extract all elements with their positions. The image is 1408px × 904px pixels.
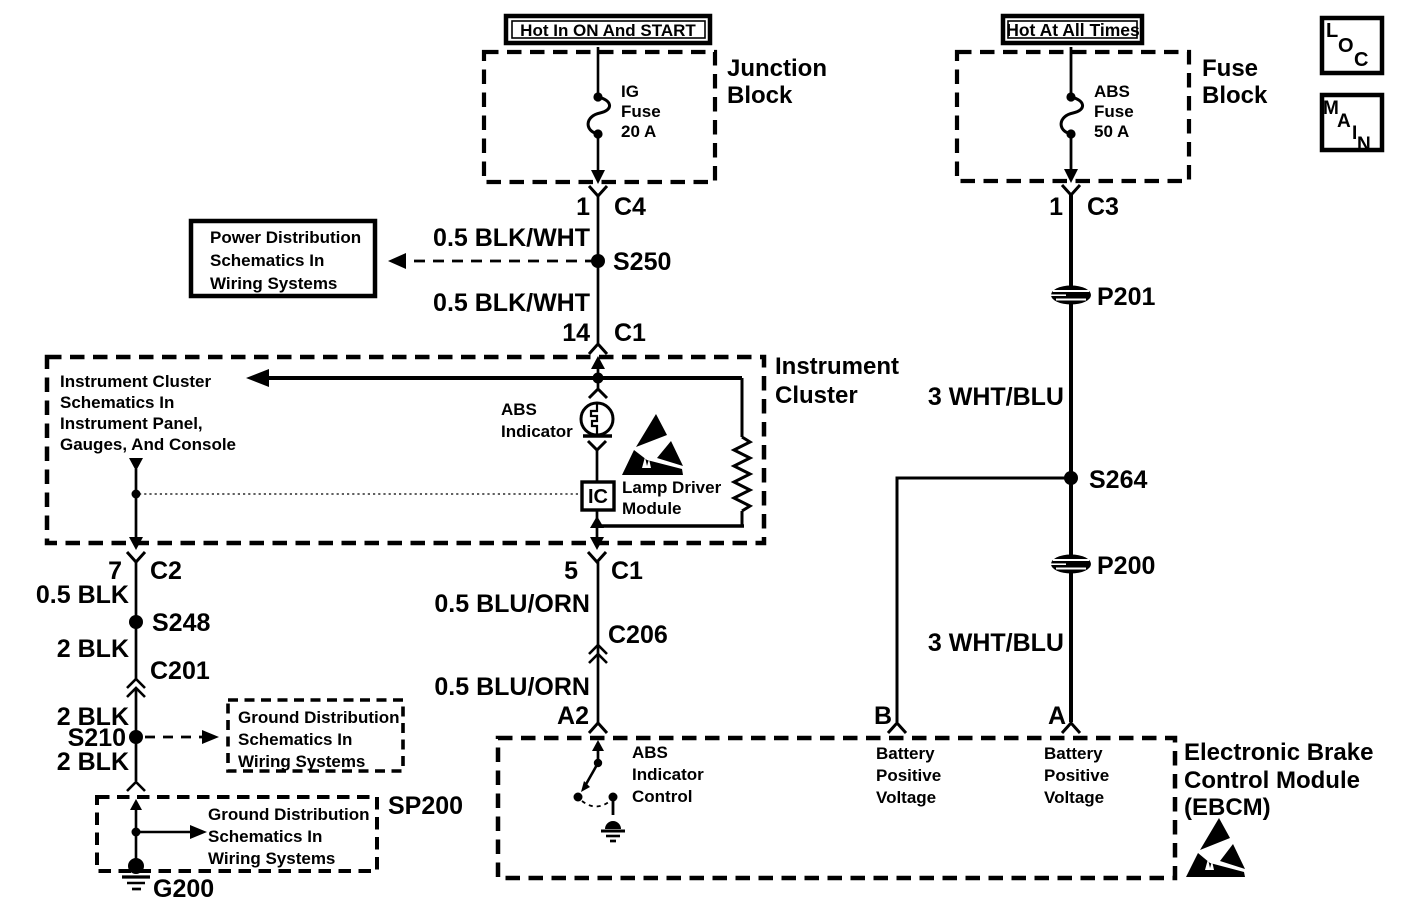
node Battery Positive Voltage text at B: [876, 744, 941, 807]
svg-text:Ground Distribution: Ground Distribution: [238, 708, 399, 727]
svg-text:P201: P201: [1097, 283, 1155, 311]
wire dashed reference arrow from S250 to Power Distribution: [404, 260, 596, 263]
svg-text:5: 5: [564, 557, 578, 585]
svg-text:(EBCM): (EBCM): [1184, 794, 1271, 821]
wire C3 to P201: [1069, 195, 1073, 287]
svg-text:C4: C4: [614, 193, 646, 221]
svg-text:Junction: Junction: [727, 55, 827, 82]
wire fuse to connector C3: [1070, 134, 1073, 171]
svg-text:C201: C201: [150, 657, 210, 685]
connector C1 female chevron: [589, 344, 607, 354]
node Hot In ON And START title box: [506, 16, 710, 43]
node Hot At All Times title box: [1003, 16, 1142, 43]
wire S264 to P200: [1069, 478, 1073, 556]
svg-text:0.5 BLK/WHT: 0.5 BLK/WHT: [433, 224, 590, 252]
connector C2 female chevron: [127, 552, 145, 562]
wire SP200 internal: [135, 808, 138, 866]
fuse F1 IG Fuse 20 A: [588, 82, 661, 141]
connector C4 female chevron: [589, 186, 607, 196]
junction block dashed box: [484, 52, 715, 182]
svg-text:C1: C1: [614, 319, 646, 347]
svg-text:Lamp Driver: Lamp Driver: [622, 478, 722, 497]
lamp socket chevron below ABS indicator: [588, 441, 606, 450]
svg-text:C206: C206: [608, 621, 668, 649]
svg-text:S264: S264: [1089, 466, 1147, 494]
wire dashed reference arrow from S210 to Ground Distribution: [145, 736, 204, 739]
svg-text:A2: A2: [557, 702, 589, 730]
wire branch from S264 to EBCM pin B: [897, 478, 1071, 722]
svg-text:IC: IC: [588, 486, 608, 508]
splice pack SP200 dashed box: [97, 797, 377, 871]
wire continuation arrow down-left to panel schematics: [129, 458, 143, 471]
svg-text:Instrument Cluster: Instrument Cluster: [60, 372, 212, 391]
svg-text:Positive: Positive: [1044, 766, 1109, 785]
svg-text:Schematics In: Schematics In: [238, 730, 352, 749]
wire C4 to splice S250 to connector C1: [597, 196, 600, 343]
svg-text:Gauges, And Console: Gauges, And Console: [60, 435, 236, 454]
splice S210: [129, 730, 143, 744]
chevron at SP200 entry: [127, 782, 145, 791]
wire resistor bottom to branch: [741, 511, 744, 527]
fuse block dashed box: [957, 52, 1189, 181]
svg-text:P200: P200: [1097, 552, 1155, 580]
connector C206 double chevron: [589, 645, 607, 654]
connector C1 pin5 female chevron: [588, 552, 606, 562]
node Power Distribution reference box: [191, 221, 375, 296]
wire feed line with left arrow inside cluster: [266, 376, 742, 380]
svg-text:ABS: ABS: [501, 400, 537, 419]
svg-text:0.5 BLK/WHT: 0.5 BLK/WHT: [433, 289, 590, 317]
svg-text:Schematics In: Schematics In: [60, 393, 174, 412]
svg-text:IG: IG: [621, 82, 639, 101]
svg-text:A: A: [1337, 111, 1351, 132]
wire C1 pin5 to C206 to A2: [597, 562, 600, 723]
connector C1 male arrow: [591, 356, 605, 369]
wire from Hot feed into junction block: [597, 47, 600, 95]
connector chevron at EBCM A2: [589, 723, 607, 733]
node SP200 junction dot: [132, 828, 141, 837]
wire C1 into cluster: [597, 367, 600, 388]
wire from Hot feed into fuse block: [1070, 47, 1073, 95]
ground internal EBCM: [601, 797, 625, 841]
ground G200: [122, 858, 214, 903]
svg-text:0.5 BLK: 0.5 BLK: [36, 581, 129, 609]
svg-text:1: 1: [576, 193, 590, 221]
grommet P200: [1051, 552, 1155, 580]
svg-text:Instrument Panel,: Instrument Panel,: [60, 414, 203, 433]
svg-text:Wiring Systems: Wiring Systems: [208, 849, 335, 868]
switch ABS indicator control: [574, 743, 705, 807]
svg-text:Indicator: Indicator: [501, 422, 573, 441]
esd symbol inside cluster: [622, 414, 683, 475]
splice S250: [591, 254, 605, 268]
wire IC to lower junction: [596, 510, 599, 537]
lamp socket chevron above ABS indicator: [589, 389, 607, 398]
wire C2 to S248 to C201: [135, 562, 138, 680]
svg-text:G200: G200: [153, 875, 214, 903]
node lower junction arrow of resistor branch: [590, 516, 604, 528]
svg-text:ABS: ABS: [632, 743, 668, 762]
svg-text:L: L: [1326, 20, 1338, 42]
svg-text:Block: Block: [727, 82, 793, 109]
connector chevron at EBCM A: [1062, 723, 1080, 733]
instrument cluster dashed box: [47, 357, 764, 543]
svg-text:14: 14: [562, 319, 590, 347]
node junction dot on left drop wire: [132, 490, 141, 499]
svg-text:O: O: [1338, 35, 1354, 57]
resistor R1: [734, 437, 750, 511]
node Ground Distribution text inside SP200: [208, 805, 369, 868]
op-amp U1 IC lamp driver module box: [582, 478, 722, 518]
svg-text:Cluster: Cluster: [775, 382, 858, 409]
connector chevron at EBCM B: [888, 723, 906, 733]
svg-text:Ground Distribution: Ground Distribution: [208, 805, 369, 824]
svg-text:Control: Control: [632, 787, 692, 806]
connector C3 male arrow: [1064, 169, 1078, 183]
svg-text:0.5 BLU/ORN: 0.5 BLU/ORN: [434, 673, 590, 701]
svg-text:ABS: ABS: [1094, 82, 1130, 101]
svg-text:Voltage: Voltage: [1044, 788, 1104, 807]
svg-text:Power Distribution: Power Distribution: [210, 228, 361, 247]
svg-text:3 WHT/BLU: 3 WHT/BLU: [928, 629, 1064, 657]
wire P201 to S264: [1069, 303, 1073, 478]
svg-text:Fuse: Fuse: [1094, 102, 1134, 121]
node LOC reference box: [1322, 18, 1382, 73]
connector C201 double chevron: [127, 679, 145, 688]
svg-text:20 A: 20 A: [621, 122, 656, 141]
wire fuse to connector C4: [597, 134, 600, 172]
connector C4 male arrow: [591, 170, 605, 184]
svg-text:Wiring Systems: Wiring Systems: [210, 274, 337, 293]
svg-text:S248: S248: [152, 609, 210, 637]
connector C3 female chevron: [1062, 185, 1080, 195]
svg-text:0.5 BLU/ORN: 0.5 BLU/ORN: [434, 590, 590, 618]
wire lower horizontal branch to resistor: [597, 524, 744, 527]
connector C1 pin5 male arrow at cluster exit: [590, 537, 604, 550]
wire dotted link from left drop to IC module: [139, 493, 580, 495]
node Ground Distribution reference box: [228, 700, 403, 771]
connector C2 male arrow at cluster exit left: [129, 537, 143, 550]
node MAIN reference box: [1322, 95, 1382, 155]
svg-text:50 A: 50 A: [1094, 122, 1129, 141]
svg-text:C: C: [1354, 49, 1368, 71]
node SP200 entry arrow: [130, 799, 142, 810]
node junction of feed line and lamp wire: [593, 373, 604, 384]
svg-text:Control Module: Control Module: [1184, 767, 1360, 794]
splice S264: [1064, 471, 1078, 485]
svg-text:Hot In ON And START: Hot In ON And START: [520, 21, 696, 40]
svg-text:A: A: [1048, 702, 1066, 730]
svg-text:Instrument: Instrument: [775, 353, 899, 380]
wire P200 to EBCM pin A: [1069, 572, 1073, 722]
grommet P201: [1051, 283, 1155, 311]
svg-text:C1: C1: [611, 557, 643, 585]
svg-text:Schematics In: Schematics In: [210, 251, 324, 270]
lamp ABS Indicator: [501, 400, 613, 441]
svg-text:1: 1: [1049, 193, 1063, 221]
svg-text:B: B: [874, 702, 892, 730]
svg-text:Block: Block: [1202, 82, 1268, 109]
svg-text:Hot At All Times: Hot At All Times: [1006, 20, 1140, 40]
svg-text:C2: C2: [150, 557, 182, 585]
splice S248: [129, 615, 143, 629]
node Battery Positive Voltage text at A: [1044, 744, 1109, 807]
svg-text:Schematics In: Schematics In: [208, 827, 322, 846]
svg-text:2 BLK: 2 BLK: [57, 748, 129, 776]
svg-text:Electronic Brake: Electronic Brake: [1184, 739, 1373, 766]
svg-text:Battery: Battery: [1044, 744, 1103, 763]
wire C201 to S210 to SP200: [135, 688, 138, 781]
svg-text:Fuse: Fuse: [1202, 55, 1258, 82]
svg-text:Module: Module: [622, 499, 682, 518]
wire arrow to ground distribution text: [136, 831, 192, 834]
svg-text:N: N: [1357, 134, 1371, 155]
svg-text:Voltage: Voltage: [876, 788, 936, 807]
svg-text:SP200: SP200: [388, 792, 463, 820]
svg-text:Battery: Battery: [876, 744, 935, 763]
svg-text:S250: S250: [613, 248, 671, 276]
fuse F2 ABS Fuse 50 A: [1061, 82, 1134, 141]
resistor branch right side: [741, 378, 744, 437]
svg-text:Wiring Systems: Wiring Systems: [238, 752, 365, 771]
node A2 entry arrow: [592, 740, 604, 751]
EBCM dashed box: [498, 738, 1175, 878]
svg-text:3 WHT/BLU: 3 WHT/BLU: [928, 383, 1064, 411]
svg-text:Positive: Positive: [876, 766, 941, 785]
node Instrument Cluster Schematics reference text: [60, 372, 236, 454]
svg-text:Indicator: Indicator: [632, 765, 704, 784]
wire lamp to IC driver: [596, 450, 599, 481]
esd symbol at EBCM: [1186, 818, 1245, 877]
svg-text:2 BLK: 2 BLK: [57, 635, 129, 663]
svg-text:Fuse: Fuse: [621, 102, 661, 121]
svg-text:C3: C3: [1087, 193, 1119, 221]
